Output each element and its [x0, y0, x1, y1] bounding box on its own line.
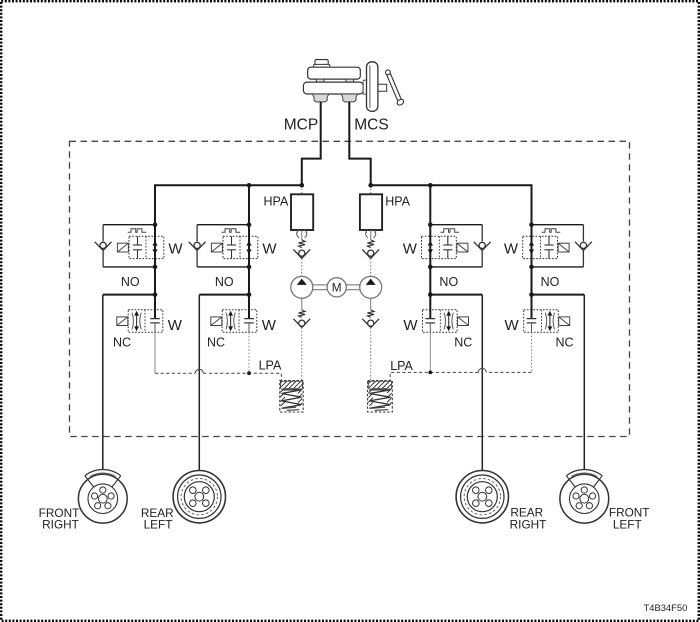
svg-text:LEFT: LEFT: [613, 517, 642, 531]
wire wheel branch rear-right: [430, 295, 482, 471]
solenoid valve NC1 body: [128, 310, 163, 333]
wire MCP (primary circuit feed): [302, 102, 321, 185]
return outlet wire of NC2: [248, 332, 250, 373]
wire bypass loop of NO2: [197, 225, 249, 267]
disc brake wheel front right: [78, 469, 127, 523]
wire bypass loop of NO3: [430, 225, 482, 267]
low pressure accumulator LPA2: [368, 381, 393, 413]
svg-text:W: W: [262, 317, 277, 334]
svg-text:NC: NC: [454, 336, 472, 350]
svg-text:W: W: [168, 317, 183, 334]
solenoid valve NC4 body: [524, 310, 559, 333]
pump P2: [360, 276, 382, 298]
master cylinder reservoir cap: [314, 60, 330, 68]
svg-text:NO: NO: [541, 275, 560, 289]
check valve (bypass) of NO4: [575, 242, 592, 251]
pump P1: [291, 276, 313, 298]
wire pump suction (P1): [301, 298, 303, 309]
svg-text:LPA: LPA: [390, 359, 413, 373]
drum brake wheel rear left: [173, 471, 225, 523]
spring above suction check valve (P1): [299, 310, 306, 318]
label FRONT LEFT: [609, 505, 650, 531]
solenoid coil of NO2: [211, 243, 222, 252]
PWM square-wave mark of NO1: [128, 229, 147, 233]
closed-position seat symbol of NC2: [244, 295, 254, 333]
wire secondary bus: [371, 185, 532, 224]
pump discharge check valve (HPA1 branch): [293, 249, 310, 258]
wire check valve to pump (HPA1 branch): [301, 258, 303, 276]
wire main line channel 3: [429, 267, 431, 295]
open-position arrow symbol of NC3: [444, 311, 453, 331]
junction NC3 outlet on return line: [428, 371, 432, 375]
closed-position seat symbol of NC3: [426, 295, 436, 333]
vacuum booster: [367, 62, 378, 112]
primary outlet port: [312, 94, 328, 102]
svg-text:HPA: HPA: [264, 195, 289, 209]
svg-text:W: W: [403, 240, 418, 257]
wire return line left (NC1/NC2 to LPA1): [155, 369, 281, 380]
open-position flow marks of NO1: [152, 241, 157, 255]
solenoid valve NO1 body: [129, 236, 164, 258]
label FRONT RIGHT: [39, 506, 80, 532]
wire main line channel 1 (NO1 to NC1): [154, 267, 156, 295]
svg-text:LPA: LPA: [259, 359, 282, 373]
booster push rod: [378, 84, 387, 91]
svg-text:LEFT: LEFT: [144, 518, 173, 532]
solenoid coil of NC3: [458, 317, 469, 326]
wire return line right (NC3/NC4 to LPA2): [390, 368, 531, 380]
solenoid valve NO4 body: [523, 236, 558, 258]
svg-text:RIGHT: RIGHT: [510, 517, 547, 531]
return outlet wire of NC1: [154, 332, 156, 373]
return outlet wire of NC4: [531, 332, 533, 372]
wire bypass loop of NO4: [532, 225, 584, 267]
closed-position seat symbol of NC1: [150, 295, 160, 333]
drum brake wheel rear right: [456, 471, 508, 523]
svg-text:NC: NC: [113, 336, 131, 350]
pump suction check valve (P1): [293, 319, 310, 328]
svg-text:W: W: [403, 317, 418, 334]
svg-text:NO: NO: [439, 275, 458, 289]
solenoid coil of NO1: [117, 243, 128, 252]
master cylinder body: [303, 82, 363, 94]
svg-text:M: M: [332, 281, 342, 295]
wire pump suction (P2): [370, 298, 372, 309]
solenoid valve NC2 body: [222, 310, 257, 333]
solenoid coil of NC1: [117, 317, 128, 326]
brake pedal lever: [386, 70, 405, 106]
pump suction check valve (P2): [362, 319, 379, 328]
svg-text:RIGHT: RIGHT: [42, 518, 79, 532]
junction nodes on buses and main lines: [153, 183, 534, 297]
master cylinder reservoir: [308, 67, 361, 79]
label REAR LEFT: [141, 506, 174, 532]
motor M: [313, 278, 360, 297]
wire wheel branch front-left: [532, 295, 585, 470]
spring above pump check valve (HPA1 branch): [299, 240, 306, 248]
HCU dashed boundary box: [70, 141, 630, 436]
open-position arrow symbol of NC2: [226, 311, 235, 331]
junction NC2 outlet on return line: [247, 371, 251, 375]
damper orifice below HPA2: [366, 230, 376, 240]
open-position flow marks of NO3: [428, 241, 433, 255]
wire check valve to pump (HPA2 branch): [370, 258, 372, 276]
wire main line through NO3: [429, 225, 431, 267]
label REAR RIGHT: [510, 505, 547, 531]
low pressure accumulator LPA1: [280, 381, 303, 413]
svg-text:MCS: MCS: [354, 117, 388, 134]
svg-text:NC: NC: [207, 336, 225, 350]
wire wheel branch front-right: [103, 295, 155, 470]
high pressure accumulator HPA2: [360, 194, 382, 230]
wire main line channel 4: [531, 267, 533, 295]
check valve (bypass) of NO1: [95, 242, 112, 251]
secondary outlet port: [341, 94, 357, 102]
svg-text:W: W: [505, 317, 520, 334]
solenoid coil of NC4: [559, 317, 570, 326]
wire main line through NO4: [531, 225, 533, 267]
svg-text:NO: NO: [215, 275, 234, 289]
svg-text:NC: NC: [555, 336, 573, 350]
wire suction line P1 to LPA1: [301, 327, 303, 380]
high pressure accumulator HPA1: [291, 194, 313, 230]
svg-text:T4B34F50: T4B34F50: [644, 602, 688, 613]
wire branch to NO3: [429, 185, 431, 224]
wire primary bus: [155, 185, 302, 224]
PWM square-wave mark of NO2: [222, 229, 241, 233]
return outlet wire of NC3: [429, 332, 431, 372]
wire bypass loop of NO1: [103, 225, 155, 267]
disc brake wheel front left: [560, 469, 609, 523]
open-position flow marks of NO2: [246, 241, 251, 255]
open-position arrow symbol of NC4: [545, 311, 554, 331]
svg-text:MCP: MCP: [284, 117, 318, 134]
svg-text:W: W: [168, 240, 183, 257]
wire suction line P2 to LPA2: [370, 327, 372, 380]
svg-text:HPA: HPA: [385, 195, 410, 209]
wire main line through NO2: [248, 225, 250, 267]
solenoid coil of NO4: [558, 243, 569, 252]
wire main line channel 2: [248, 267, 250, 295]
solenoid coil of NO3: [457, 243, 468, 252]
wire bus to HPA2: [370, 185, 372, 194]
solenoid valve NC3 body: [423, 310, 458, 333]
wire MCS (secondary circuit feed): [349, 102, 370, 185]
pump discharge check valve (HPA2 branch): [362, 249, 379, 258]
wire wheel branch rear-left: [199, 295, 249, 471]
open-position arrow symbol of NC1: [132, 311, 141, 331]
solenoid valve NO3 body: [422, 236, 457, 258]
solenoid coil of NC2: [211, 317, 222, 326]
reservoir nipples: [316, 79, 353, 82]
booster attachment flange: [363, 80, 366, 94]
spring above pump check valve (HPA2 branch): [367, 240, 374, 248]
wire bus to HPA1: [301, 185, 303, 194]
check valve (bypass) of NO3: [474, 242, 491, 251]
spring above suction check valve (P2): [367, 310, 374, 318]
wire main line through NO1: [154, 225, 156, 267]
wire branch to NO2: [248, 185, 250, 224]
svg-text:W: W: [262, 240, 277, 257]
solenoid valve NO2 body: [223, 236, 258, 258]
svg-text:NO: NO: [121, 275, 140, 289]
PWM square-wave mark of NO4: [542, 229, 561, 233]
check valve (bypass) of NO2: [189, 242, 206, 251]
closed-position seat symbol of NC4: [527, 295, 537, 333]
damper orifice below HPA1: [297, 230, 307, 240]
svg-text:W: W: [504, 240, 519, 257]
open-position flow marks of NO4: [529, 241, 534, 255]
PWM square-wave mark of NO3: [440, 229, 459, 233]
